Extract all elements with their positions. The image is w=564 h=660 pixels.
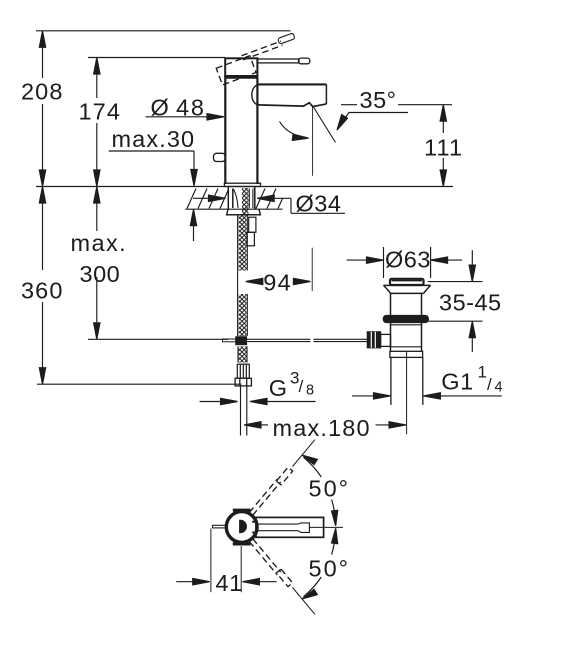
lever rod plan inner [257,523,309,533]
svg-text:360: 360 [21,277,64,303]
faucet head raised (dashed) [216,56,256,85]
leader Ø48 [146,114,225,120]
svg-text:41: 41 [216,570,243,596]
faucet body circle plan [226,510,257,544]
extension line bottom of hose (max.300) [88,338,229,340]
drain body upper [391,293,422,315]
mounting shank assembly [228,187,255,209]
svg-text:35-45: 35-45 [439,289,502,315]
drain pop-up cap [390,279,424,285]
dimension G3/8 [200,398,316,404]
svg-text:50°: 50° [309,476,351,502]
spout [252,84,327,106]
shank threaded rod crosshatch [242,188,249,215]
svg-text:94: 94 [263,269,292,295]
svg-text:208: 208 [21,79,64,105]
swing axis extension upper [293,440,316,467]
lever handle horizontal [257,58,309,64]
lever plan [256,517,324,537]
faucet base plate [224,183,260,186]
hose lower section [238,346,247,362]
svg-text:111: 111 [424,134,463,160]
countertop reference line [36,186,453,188]
hose connector second [247,217,256,246]
svg-text:300: 300 [80,261,121,287]
dimension Ø34 [193,195,345,213]
faucet body [225,79,257,185]
countertop underside line [185,208,282,210]
svg-text:50°: 50° [309,556,351,582]
dimension 174 [94,58,100,187]
dimension max.300 [94,187,100,340]
50 degree arc upper [302,455,338,526]
svg-text:G: G [269,375,288,401]
shank washer nut [227,209,261,215]
drain knurled knob [367,332,380,348]
dimension G1 1/4 [352,393,502,399]
svg-text:max.30: max.30 [112,126,196,152]
pin plan left [213,525,227,528]
extension line top of faucet head [88,57,225,59]
counter hatching left [187,189,228,209]
label G3/8 [269,368,314,401]
hose braiding crosshatch [239,215,247,363]
extension line spout outlet level [341,104,452,106]
lever swing dashed lower [249,539,292,587]
svg-text:Ø34: Ø34 [296,191,342,217]
lever handle raised (dashed) [242,41,283,60]
lever tip raised outline [278,33,296,44]
leader max.30 [109,151,198,241]
50 degree arc lower [302,528,338,599]
extension lines 41 [211,529,241,593]
drain tailpipe G1 1/4 [391,357,423,405]
drain o-ring seal [383,316,428,323]
horizontal actuating rod [246,339,367,341]
svg-text:Ø63: Ø63 [385,246,431,272]
drain pull knob on body [214,153,226,161]
drain bottom collar [390,351,423,357]
svg-text:1: 1 [478,363,487,382]
extension line bottom of supply fitting (360) [37,383,242,385]
pivot dots [252,521,254,523]
svg-text:35°: 35° [360,87,397,113]
svg-text:174: 174 [79,98,122,124]
svg-text:/: / [299,377,304,396]
supply tube end [241,386,247,436]
dimension Ø63 [347,247,462,278]
dimension 111 [440,105,446,187]
lever centerline [309,526,343,528]
rod clamp [223,337,247,345]
hose ribbed fitting [237,364,249,378]
dimension 360 [39,187,45,385]
svg-text:4: 4 [495,379,503,395]
svg-text:8: 8 [306,383,314,399]
svg-text:/: / [487,375,492,394]
extension line top of lever [36,30,291,32]
dimension 94 [246,278,311,284]
dimension max.180 [244,422,406,428]
swing axis extension lower [293,588,316,615]
counter hatching right [256,189,283,209]
label G1 1/4 [441,363,502,396]
drain body lower [391,323,422,352]
drain centerline [406,352,408,434]
hose hex nut G3/8 [235,378,251,386]
svg-text:Ø: Ø [151,95,170,121]
35 degree direction line [313,106,336,143]
drain rod port [381,334,391,346]
aerator stream axis line [312,107,314,176]
cartridge D profile [239,520,247,533]
svg-text:48: 48 [176,95,206,121]
dimension 41 [176,579,277,585]
flexible supply hose [238,215,248,336]
svg-text:max.: max. [71,230,128,256]
svg-text:max.180: max.180 [273,415,371,441]
35 degree angle arc [280,122,309,141]
svg-text:G1: G1 [441,368,473,394]
pop-up rod extension line [311,248,313,291]
faucet head [224,58,258,77]
drain flange [384,285,431,293]
dimension 208 [39,31,45,187]
dimension 35-45 [428,250,483,352]
leader 35 degrees [337,113,408,131]
lever swing dashed upper [249,467,292,515]
